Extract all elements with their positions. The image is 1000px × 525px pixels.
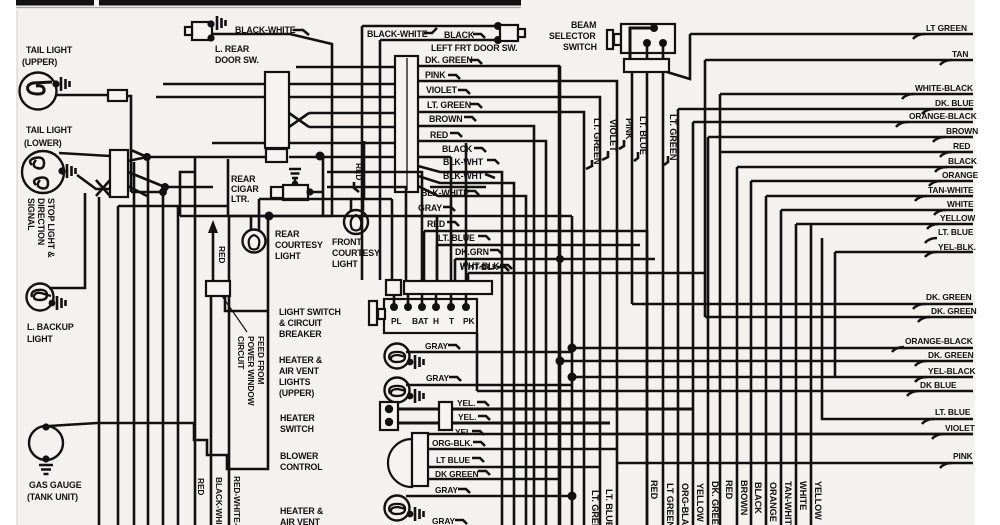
svg-text:ORANGE-BLACK: ORANGE-BLACK bbox=[905, 336, 973, 346]
lt blue wire mid bbox=[437, 245, 640, 281]
svg-text:COURTESY: COURTESY bbox=[332, 248, 380, 258]
heater switch body bbox=[380, 402, 398, 430]
heater connector bbox=[439, 402, 452, 430]
wire cigar to body harness bbox=[310, 157, 323, 216]
svg-text:VIOLET: VIOLET bbox=[608, 119, 618, 152]
cross link harness bbox=[131, 191, 163, 194]
svg-text:GAS GAUGE: GAS GAUGE bbox=[29, 480, 82, 490]
svg-text:LT. BLUE: LT. BLUE bbox=[938, 227, 974, 237]
wire left frt door sw lower bbox=[380, 39, 498, 42]
wire label tan-white (rotated) bbox=[783, 481, 793, 525]
gray wire 1 bbox=[406, 351, 572, 354]
rear courtesy light lamp bbox=[243, 230, 266, 253]
wire label lt green 2 (rotated) bbox=[665, 483, 675, 525]
svg-text:LT. GREE: LT. GREE bbox=[590, 490, 600, 525]
svg-text:LIGHT: LIGHT bbox=[332, 259, 358, 269]
wires below power window connector bbox=[210, 296, 213, 525]
heater lamp 1 bbox=[385, 344, 424, 370]
svg-text:DK. GREEN: DK. GREEN bbox=[926, 292, 972, 302]
svg-text:WHITE: WHITE bbox=[947, 199, 974, 209]
body outline corner bbox=[227, 159, 230, 216]
svg-text:YEL.: YEL. bbox=[458, 412, 476, 422]
wire label red (rotated) bbox=[649, 480, 659, 500]
svg-text:CIRCUIT: CIRCUIT bbox=[236, 336, 246, 370]
svg-text:PINK: PINK bbox=[953, 451, 973, 461]
svg-text:H: H bbox=[433, 316, 439, 326]
wire front courtesy to switch bbox=[351, 198, 392, 201]
wire L rear door sw to harness bbox=[212, 34, 332, 216]
svg-text:TAIL LIGHT: TAIL LIGHT bbox=[26, 125, 73, 135]
svg-text:RED: RED bbox=[217, 246, 227, 263]
svg-text:SWITCH: SWITCH bbox=[563, 42, 597, 52]
svg-text:BLACK-WHI: BLACK-WHI bbox=[214, 477, 224, 524]
svg-text:HEATER &: HEATER & bbox=[280, 506, 324, 516]
svg-text:SIGNAL: SIGNAL bbox=[26, 198, 36, 231]
red wire mid bbox=[424, 231, 647, 525]
svg-text:L. REAR: L. REAR bbox=[215, 44, 250, 54]
svg-text:POWER WINDOW: POWER WINDOW bbox=[246, 336, 256, 406]
red feed wire rotated label bbox=[363, 141, 366, 199]
svg-text:LT. GREEN: LT. GREEN bbox=[668, 114, 678, 161]
svg-text:BLACK-WHITE: BLACK-WHITE bbox=[367, 29, 428, 39]
light switch body bbox=[384, 299, 477, 333]
svg-text:ORANGE-BLACK: ORANGE-BLACK bbox=[909, 111, 977, 121]
connector block rear harness bbox=[110, 150, 128, 197]
svg-text:COURTESY: COURTESY bbox=[275, 240, 323, 250]
svg-text:VIOLET: VIOLET bbox=[426, 85, 458, 95]
svg-text:BROWN: BROWN bbox=[429, 114, 462, 124]
lt blue right wire bbox=[822, 238, 973, 419]
svg-text:PL: PL bbox=[391, 316, 402, 326]
svg-text:LIGHT: LIGHT bbox=[27, 334, 53, 344]
yel wires bbox=[398, 408, 693, 411]
bottom-left rotated wire labels bbox=[196, 478, 206, 495]
front courtesy light lamp bbox=[344, 210, 368, 234]
right edge wire: yellow bbox=[796, 224, 973, 525]
svg-text:DK. GREEN: DK. GREEN bbox=[928, 350, 974, 360]
power window feed connector bbox=[206, 281, 230, 296]
svg-text:DK. GREEN: DK. GREEN bbox=[710, 481, 720, 525]
svg-text:LT. BLUE: LT. BLUE bbox=[438, 233, 475, 243]
svg-text:SWITCH: SWITCH bbox=[280, 424, 314, 434]
svg-text:(TANK UNIT): (TANK UNIT) bbox=[27, 492, 78, 502]
left bulkhead connector (tall) bbox=[265, 72, 289, 148]
rear cigar lighter heat element bbox=[289, 169, 301, 187]
wire label org-black (rotated) bbox=[680, 483, 690, 525]
heater lamp 2 bbox=[385, 378, 424, 404]
svg-text:(UPPER): (UPPER) bbox=[279, 388, 314, 398]
svg-text:LTR.: LTR. bbox=[231, 194, 249, 204]
right edge wire: brown bbox=[708, 137, 973, 525]
right edge wire: white-black bbox=[720, 94, 973, 525]
svg-text:YELLOW: YELLOW bbox=[813, 481, 823, 520]
wire tail upper to connector bbox=[56, 94, 108, 97]
wires front courtesy bbox=[259, 157, 363, 211]
yel-black right wire bbox=[572, 376, 973, 379]
junction dot power feed bbox=[265, 212, 274, 221]
svg-text:FEED FROM: FEED FROM bbox=[256, 336, 266, 385]
feed from power window circuit label (rotated) bbox=[256, 336, 266, 385]
right edge wire: yel-blk bbox=[835, 252, 973, 377]
tail light lower lamp bbox=[22, 151, 76, 193]
svg-text:BLK-WHT: BLK-WHT bbox=[443, 171, 484, 181]
lt green wire bbox=[418, 112, 584, 525]
rear cigar lighter body bbox=[283, 185, 308, 200]
svg-text:FRONT: FRONT bbox=[332, 237, 362, 247]
dk green right wire 1 bbox=[632, 303, 973, 306]
svg-text:RED-WHITE-: RED-WHITE- bbox=[232, 476, 242, 525]
blk-white wire 3 (loop label) bbox=[418, 186, 526, 525]
svg-text:LEFT FRT DOOR SW.: LEFT FRT DOOR SW. bbox=[431, 43, 517, 53]
wire label dk green (rotated) bbox=[710, 481, 720, 525]
left frt door switch bbox=[500, 25, 525, 41]
svg-text:LT. BLUE: LT. BLUE bbox=[935, 407, 971, 417]
wire rear body feed bbox=[229, 216, 332, 281]
wire label red 2 (rotated) bbox=[724, 480, 734, 500]
svg-text:PINK: PINK bbox=[425, 70, 446, 80]
svg-text:DIRECTION: DIRECTION bbox=[36, 198, 46, 245]
wire label orange (rotated) bbox=[768, 482, 778, 522]
blower wires bbox=[428, 433, 973, 436]
wire gas gauge feed with steps bbox=[49, 216, 268, 469]
svg-text:YEL.: YEL. bbox=[457, 398, 475, 408]
svg-text:LT. GREEN: LT. GREEN bbox=[592, 118, 602, 165]
harness feed horizontal bbox=[118, 205, 229, 208]
black wire mid bbox=[418, 156, 451, 159]
svg-text:YEL: YEL bbox=[455, 427, 471, 437]
svg-text:GRAY: GRAY bbox=[426, 373, 450, 383]
wht-blk wire mid bbox=[468, 273, 705, 281]
wire backup light up to harness bbox=[49, 193, 85, 288]
svg-text:LT BLUE: LT BLUE bbox=[436, 455, 471, 465]
svg-text:BLACK: BLACK bbox=[444, 30, 475, 40]
svg-text:YELLOW: YELLOW bbox=[695, 483, 705, 522]
svg-text:ORG-BLK.: ORG-BLK. bbox=[432, 438, 473, 448]
svg-text:HEATER: HEATER bbox=[280, 413, 315, 423]
svg-text:& CIRCUIT: & CIRCUIT bbox=[279, 318, 323, 328]
top scan bar bbox=[16, 0, 521, 6]
crossover between connectors bbox=[289, 113, 309, 127]
svg-text:BROWN: BROWN bbox=[946, 126, 978, 136]
wires up from light switch bar bbox=[391, 199, 394, 281]
svg-text:TAN-WHITE: TAN-WHITE bbox=[928, 185, 974, 195]
violet right wire bbox=[600, 433, 973, 436]
beam to lt green wire bbox=[667, 34, 690, 79]
svg-text:(UPPER): (UPPER) bbox=[22, 57, 57, 67]
wire rear courtesy bbox=[251, 199, 259, 230]
wire label lt blue (rotated) bbox=[604, 489, 614, 525]
svg-text:TAN: TAN bbox=[952, 49, 968, 59]
svg-text:BLACK: BLACK bbox=[442, 144, 473, 154]
svg-text:CIGAR: CIGAR bbox=[231, 184, 259, 194]
svg-text:RED: RED bbox=[430, 130, 448, 140]
dk green wire bbox=[418, 66, 559, 525]
tan vertical bbox=[704, 60, 707, 317]
circuit breaker bbox=[369, 301, 377, 325]
wire connector to junction bbox=[127, 96, 147, 192]
blower control body bbox=[388, 439, 412, 487]
wire label yellow 2 (rotated) bbox=[813, 481, 823, 520]
dk blue wire from switch bbox=[477, 333, 973, 391]
right edge wire: orange-black bbox=[693, 122, 973, 525]
svg-text:DK. GREEN: DK. GREEN bbox=[425, 55, 473, 65]
dk green right wire 3 bbox=[560, 360, 973, 363]
svg-text:LIGHT: LIGHT bbox=[275, 251, 301, 261]
svg-text:LIGHT SWITCH: LIGHT SWITCH bbox=[279, 307, 341, 317]
wire label yellow (rotated) bbox=[695, 483, 705, 522]
svg-text:DK.GRN: DK.GRN bbox=[455, 247, 489, 257]
svg-text:LT. BLUE: LT. BLUE bbox=[604, 489, 614, 525]
stop light direction signal label (rotated) bbox=[46, 198, 56, 258]
wire tail lower bulb to connector bbox=[77, 175, 110, 189]
svg-text:YEL-BLK.: YEL-BLK. bbox=[938, 242, 976, 252]
left bulkhead connector (lower) bbox=[266, 149, 287, 162]
wire label brown (rotated) bbox=[739, 480, 749, 516]
svg-text:RED: RED bbox=[196, 478, 206, 495]
orange-black right wire bbox=[572, 347, 973, 350]
svg-text:LT GREEN: LT GREEN bbox=[665, 483, 675, 525]
svg-text:ORANGE: ORANGE bbox=[942, 170, 979, 180]
svg-text:GRAY: GRAY bbox=[435, 485, 459, 495]
wire gray vertical bbox=[571, 216, 574, 525]
svg-text:BLK-WHT: BLK-WHT bbox=[443, 157, 484, 167]
svg-text:DK. GREEN: DK. GREEN bbox=[931, 306, 977, 316]
brown wire bbox=[418, 126, 534, 525]
wires below beam selector bbox=[631, 72, 634, 304]
right edge wire: dk blue bbox=[678, 109, 973, 525]
feed arrow red bbox=[212, 228, 215, 281]
right edge wire: orange bbox=[751, 181, 973, 525]
svg-text:PK: PK bbox=[463, 316, 474, 326]
rotated center labels bbox=[592, 118, 602, 165]
gray wire 2 bbox=[406, 384, 572, 387]
pointer line to feed label bbox=[222, 296, 247, 332]
svg-text:STOP LIGHT &: STOP LIGHT & bbox=[46, 198, 56, 258]
L rear door switch bbox=[185, 16, 226, 42]
svg-text:ORG-BLACK: ORG-BLACK bbox=[680, 483, 690, 525]
pink right wire bbox=[617, 462, 973, 465]
crossover left of connector bbox=[96, 180, 110, 196]
gray wire mid bbox=[420, 215, 572, 218]
svg-text:RED: RED bbox=[724, 480, 734, 500]
svg-text:RED: RED bbox=[953, 141, 970, 151]
svg-text:AIR VENT: AIR VENT bbox=[279, 366, 320, 376]
backup light lamp bbox=[27, 284, 66, 311]
blk-wht wire 2 bbox=[418, 176, 514, 525]
fan-out wires from connector bbox=[128, 157, 165, 196]
gas gauge circle bbox=[29, 423, 63, 474]
svg-text:BEAM: BEAM bbox=[571, 20, 596, 30]
svg-text:HEATER &: HEATER & bbox=[279, 355, 323, 365]
main bulkhead connector (right tall) bbox=[395, 56, 418, 192]
svg-text:PINK: PINK bbox=[624, 118, 634, 140]
svg-text:REAR: REAR bbox=[231, 174, 256, 184]
right edge wire: tan-white bbox=[766, 196, 973, 525]
svg-text:BROWN: BROWN bbox=[739, 480, 749, 516]
junction dot lower harness bbox=[143, 153, 151, 161]
blk-wht wire 1 bbox=[418, 166, 502, 525]
light switch connector bar bbox=[386, 280, 401, 295]
svg-text:LT GREEN: LT GREEN bbox=[926, 23, 967, 33]
wire label white (rotated) bbox=[798, 481, 808, 510]
svg-text:BAT: BAT bbox=[412, 316, 429, 326]
dk green right wire 2 bbox=[705, 316, 973, 319]
violet wire bbox=[418, 97, 600, 525]
wire tail lower top to connector bbox=[59, 153, 110, 156]
dk grn wire mid bbox=[455, 259, 655, 281]
svg-text:GRAY: GRAY bbox=[425, 341, 449, 351]
svg-text:WHITE: WHITE bbox=[798, 481, 808, 510]
svg-text:BLACK: BLACK bbox=[948, 156, 977, 166]
svg-text:BLACK: BLACK bbox=[753, 482, 763, 514]
svg-text:GRAY: GRAY bbox=[432, 516, 456, 525]
wire dk green vertical bbox=[559, 66, 562, 525]
terminals bbox=[390, 294, 470, 311]
svg-text:YELLOW: YELLOW bbox=[940, 213, 975, 223]
black-white / black wire top center bbox=[362, 25, 498, 28]
heater lamp 3 bbox=[385, 496, 424, 522]
right edge wire: white bbox=[781, 210, 973, 525]
svg-text:BLK-WHITE: BLK-WHITE bbox=[421, 188, 469, 198]
beam selector switch body bbox=[607, 24, 675, 59]
left-center horizontal harness wires bbox=[296, 66, 395, 69]
right edge wire: red bbox=[721, 151, 973, 154]
right edge wire: black bbox=[737, 167, 973, 525]
svg-text:DK BLUE: DK BLUE bbox=[920, 380, 957, 390]
svg-text:TAIL LIGHT: TAIL LIGHT bbox=[26, 45, 73, 55]
wire label black (rotated) bbox=[753, 482, 763, 514]
svg-text:DOOR SW.: DOOR SW. bbox=[215, 55, 259, 65]
svg-text:REAR: REAR bbox=[275, 229, 300, 239]
svg-text:BLOWER: BLOWER bbox=[280, 451, 319, 461]
svg-text:BREAKER: BREAKER bbox=[279, 329, 322, 339]
right edge wire: lt green bbox=[690, 33, 973, 36]
wire body loop bbox=[225, 296, 268, 311]
svg-text:LT. BLUE: LT. BLUE bbox=[638, 116, 648, 155]
red wire bbox=[418, 141, 546, 525]
svg-text:TAN-WHITE: TAN-WHITE bbox=[783, 481, 793, 525]
svg-text:SELECTOR: SELECTOR bbox=[549, 31, 596, 41]
tail light upper lamp bbox=[20, 73, 70, 110]
svg-text:VIOLET: VIOLET bbox=[945, 423, 976, 433]
left harness vertical bundle bbox=[98, 197, 101, 525]
verticals from door switch wires bbox=[361, 26, 364, 280]
svg-text:L. BACKUP: L. BACKUP bbox=[27, 322, 74, 332]
svg-text:LIGHTS: LIGHTS bbox=[279, 377, 311, 387]
gray wire 3 bbox=[406, 495, 572, 498]
right edge wire: lt blue bbox=[810, 224, 813, 525]
beam selector connector bar bbox=[624, 59, 669, 72]
connector on tail upper wire bbox=[108, 90, 127, 101]
svg-text:WHITE-BLACK: WHITE-BLACK bbox=[915, 83, 973, 93]
pink wire bbox=[418, 81, 617, 525]
svg-text:DK GREEN: DK GREEN bbox=[435, 469, 478, 479]
svg-text:(LOWER): (LOWER) bbox=[24, 138, 62, 148]
svg-text:CONTROL: CONTROL bbox=[280, 462, 323, 472]
right edge wire: tan bbox=[705, 59, 973, 62]
svg-text:DK. BLUE: DK. BLUE bbox=[935, 98, 974, 108]
wire label lt green (rotated) bbox=[590, 490, 600, 525]
svg-text:RED: RED bbox=[649, 480, 659, 500]
svg-text:LT. GREEN: LT. GREEN bbox=[427, 100, 471, 110]
svg-text:ORANGE: ORANGE bbox=[768, 482, 778, 522]
svg-text:YEL-BLACK: YEL-BLACK bbox=[928, 366, 976, 376]
svg-text:AIR VENT: AIR VENT bbox=[280, 517, 321, 525]
